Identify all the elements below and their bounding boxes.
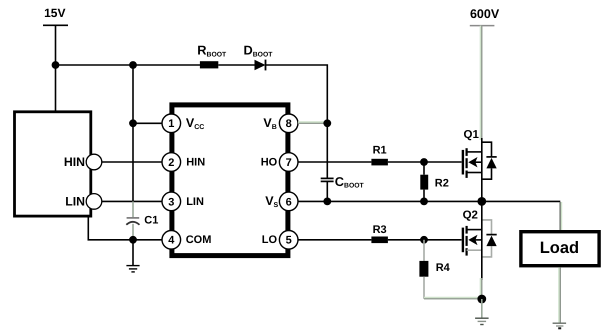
pin 4: [162, 231, 181, 250]
wire D_BOOT to VB corner: [266, 65, 328, 123]
svg-text:2: 2: [168, 157, 174, 169]
resistor R_BOOT: [200, 61, 218, 68]
svg-text:HO: HO: [261, 157, 278, 169]
node junction Q2 source / R4: [477, 295, 486, 304]
capacitor C_BOOT: [321, 123, 334, 201]
svg-text:Q1: Q1: [464, 129, 480, 141]
wire Vs to Load (green vertical): [559, 202, 562, 230]
wire HIN to pin 2: [102, 161, 162, 163]
svg-text:LIN: LIN: [186, 196, 204, 208]
capacitor C1: [126, 201, 139, 239]
signal source box: [15, 112, 91, 216]
pin 1: [162, 114, 181, 133]
wire 15V down to source box: [55, 65, 57, 111]
wire LIN to pin 3: [102, 200, 162, 202]
node junction Vcc pin feed: [129, 119, 137, 127]
pin 2: [162, 153, 181, 172]
wire R3 to Q2 gate: [388, 239, 462, 241]
node junction VB: [323, 119, 331, 127]
node junction COM: [129, 236, 137, 244]
node junction HO / R2: [420, 158, 428, 166]
pin 5: [279, 231, 298, 250]
svg-text:8: 8: [286, 118, 292, 130]
svg-text:4: 4: [168, 235, 175, 247]
ground Q2 source: [475, 299, 489, 325]
wire pin 8 to VB node (green): [298, 121, 327, 124]
node junction LO / R4: [420, 236, 428, 244]
load box: [521, 232, 599, 266]
svg-text:Load: Load: [540, 239, 579, 257]
wire Vcc feed vertical: [132, 65, 134, 201]
svg-text:C1: C1: [144, 214, 158, 226]
node junction Vcc branch: [129, 61, 137, 69]
terminal LIN: [86, 194, 102, 210]
transistor Q1: [463, 142, 497, 179]
svg-text:R3: R3: [373, 224, 387, 236]
svg-text:15V: 15V: [44, 6, 65, 20]
terminal HIN: [86, 154, 102, 170]
pin 3: [162, 192, 181, 211]
pin 7: [279, 153, 298, 172]
wire Q2 drain/source vertical: [481, 201, 483, 280]
diode D_BOOT: [255, 60, 266, 71]
node junction Vs / R2: [420, 198, 428, 206]
svg-text:Q2: Q2: [463, 210, 478, 222]
power rail 600V: [470, 7, 500, 26]
resistor R4: [419, 240, 428, 299]
wire R1 to Q1 gate: [388, 161, 462, 163]
svg-text:LO: LO: [262, 234, 278, 246]
wire HO to R1: [298, 161, 371, 163]
ground COM: [126, 240, 139, 272]
wire COM return: [88, 218, 162, 240]
wire 600V down to Q1 drain (green): [480, 26, 483, 140]
wire 15V lead down: [55, 25, 57, 65]
wire Load to ground (green): [558, 267, 561, 322]
wire Vs line: [298, 200, 560, 202]
wire LO to R3: [298, 239, 371, 241]
svg-text:1: 1: [168, 118, 174, 130]
pin 6: [279, 192, 298, 211]
svg-text:HIN: HIN: [64, 155, 85, 169]
resistor R3: [371, 237, 388, 244]
svg-text:600V: 600V: [470, 7, 500, 21]
svg-text:7: 7: [286, 157, 292, 169]
svg-text:COM: COM: [186, 234, 212, 246]
svg-text:R4: R4: [436, 262, 451, 274]
wire Q1 drain/source vertical: [481, 138, 483, 201]
svg-text:3: 3: [168, 196, 174, 208]
resistor R2: [420, 162, 428, 201]
wire R4 to Q2 source node (gray-green): [424, 297, 482, 300]
transistor Q2: [463, 220, 497, 257]
svg-text:R2: R2: [435, 178, 449, 190]
IC U1 gate driver body: [172, 105, 288, 256]
wire Q2 source down (green): [480, 278, 483, 299]
svg-text:LIN: LIN: [65, 194, 85, 208]
node junction Vs / Q1 source / Q2 drain: [477, 197, 486, 206]
wire to pin 1: [133, 122, 162, 124]
svg-text:HIN: HIN: [186, 157, 205, 169]
power rail 15V: [43, 6, 68, 25]
node junction Vs / C_BOOT: [323, 198, 331, 206]
ground Load: [553, 323, 567, 328]
wire top rail to R_BOOT: [56, 64, 201, 66]
svg-text:5: 5: [286, 235, 292, 247]
wire R_BOOT to D_BOOT: [218, 64, 254, 66]
resistor R1: [371, 159, 388, 166]
pin 8: [279, 114, 298, 133]
node junction 15V rail: [52, 61, 60, 69]
svg-text:6: 6: [286, 196, 292, 208]
svg-text:R1: R1: [373, 145, 387, 157]
